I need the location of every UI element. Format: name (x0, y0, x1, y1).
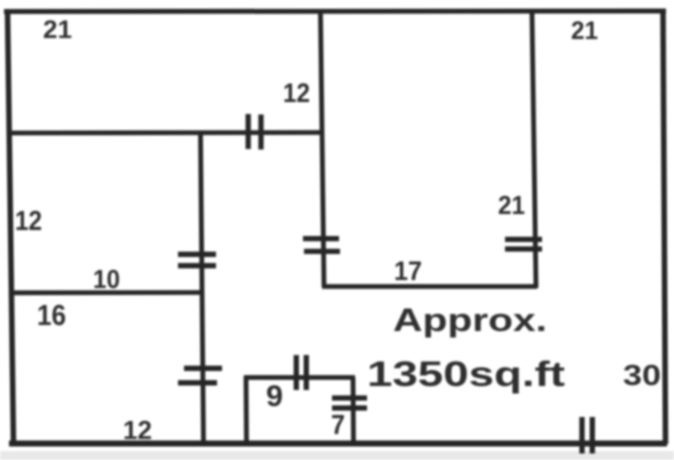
outer wall right (663, 9, 666, 444)
wall D: long vertical divider left-center (201, 132, 204, 443)
opening tick T7 on room9 right wall (332, 398, 367, 408)
opening tick T8 on bottom outer wall (582, 417, 592, 454)
room9 wall right (351, 378, 356, 444)
svg-text:21: 21 (571, 17, 598, 45)
svg-text:17: 17 (394, 256, 422, 286)
outer wall bottom (9, 441, 667, 447)
wall B: vertical divider center-top (321, 13, 325, 287)
svg-text:21: 21 (43, 16, 72, 44)
svg-text:Approx.: Approx. (393, 302, 547, 338)
opening tick T2 on wall B (303, 239, 340, 252)
svg-text:21: 21 (498, 190, 525, 220)
room9 wall left (244, 376, 249, 443)
svg-text:30: 30 (623, 360, 661, 392)
opening tick T4 on wall D upper (178, 254, 216, 265)
outer wall top (4, 9, 666, 15)
bottom gray strip (0, 451, 674, 460)
opening tick T1 on wall A (248, 114, 261, 150)
svg-text:12: 12 (283, 78, 310, 108)
room9 wall top (244, 375, 355, 380)
opening tick T5 on wall D lower (178, 368, 222, 383)
wall A: horizontal divider upper-left (10, 130, 324, 135)
svg-text:7: 7 (331, 409, 345, 440)
wall C: vertical wall right of middle room (532, 13, 536, 288)
svg-text:1350sq.ft: 1350sq.ft (367, 354, 565, 394)
opening tick T6 on room9 top wall (296, 355, 306, 390)
wall 10: horizontal divider at left (11, 290, 202, 295)
svg-text:9: 9 (266, 380, 283, 413)
wall 17: horizontal wall of middle room (322, 284, 537, 289)
opening tick T3 on wall C (505, 239, 542, 249)
svg-text:16: 16 (37, 300, 66, 332)
svg-text:12: 12 (15, 205, 42, 236)
outer wall left (8, 9, 14, 444)
svg-text:12: 12 (123, 415, 152, 445)
svg-text:10: 10 (93, 264, 120, 294)
